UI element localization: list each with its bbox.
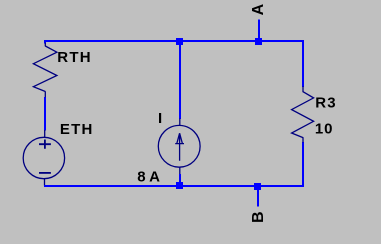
junction: node B on bottom net (254, 183, 261, 190)
svg-text:R3: R3 (315, 94, 337, 111)
wire: current source top wire (179, 40, 181, 119)
current source I bottom pin (179, 167, 181, 175)
voltage source ETH (circle) (23, 137, 64, 178)
resistor R3 (zigzag) (292, 92, 314, 138)
resistor RTH (zigzag) (33, 46, 57, 92)
current source I top pin (179, 119, 181, 127)
voltage source ETH plus sign (39, 140, 51, 149)
wire: node B stub (257, 186, 259, 206)
wire: node A stub (258, 20, 260, 42)
wire: current source bottom wire (179, 174, 181, 186)
resistor RTH bottom pin (44, 91, 46, 97)
current source I (circle) (158, 125, 200, 167)
voltage source ETH minus sign (39, 172, 51, 174)
voltage source ETH bottom pin (44, 179, 46, 186)
svg-text:ETH: ETH (60, 121, 94, 138)
svg-text:RTH: RTH (57, 49, 91, 66)
wire: top horizontal net (44, 40, 304, 42)
voltage source ETH top pin (44, 130, 46, 138)
wire: right vertical R3 top (302, 40, 304, 87)
junction: top current-source node (176, 38, 183, 45)
wire: bottom horizontal net (44, 185, 304, 187)
wire: right vertical R3 bottom (302, 142, 304, 187)
svg-text:B: B (250, 211, 267, 223)
current source I arrow (175, 133, 184, 161)
junction: bottom current-source node (176, 182, 183, 189)
svg-text:A: A (250, 3, 267, 15)
resistor R3 top pin (302, 86, 304, 92)
wire: left branch between RTH bottom and ETH top (44, 97, 46, 131)
resistor RTH top pin (44, 43, 46, 47)
svg-text:8 A: 8 A (137, 169, 160, 186)
svg-text:I: I (158, 110, 162, 127)
resistor R3 bottom pin (302, 137, 304, 142)
junction: node A on top net (255, 38, 262, 45)
svg-text:10: 10 (315, 121, 334, 138)
wire: left vertical into RTH top (44, 40, 46, 44)
